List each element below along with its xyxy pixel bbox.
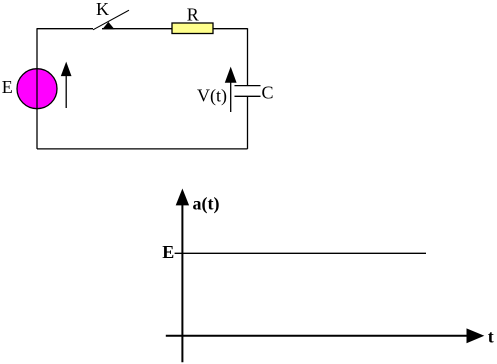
svg-text:a(t): a(t)	[193, 193, 220, 214]
svg-text:t: t	[488, 327, 494, 347]
svg-text:V(t): V(t)	[197, 86, 227, 107]
svg-text:K: K	[96, 0, 109, 19]
svg-text:E: E	[162, 242, 174, 262]
svg-text:C: C	[262, 83, 274, 103]
svg-text:R: R	[187, 5, 199, 25]
svg-text:E: E	[2, 77, 13, 97]
